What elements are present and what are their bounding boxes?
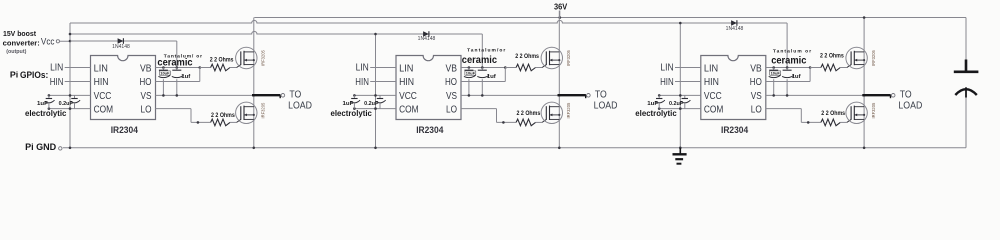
svg-text:LO: LO [446,104,457,115]
svg-text:1uf: 1uf [181,74,190,80]
node LIN input label (block 2) [356,63,369,74]
svg-text:IRF3205: IRF3205 [261,102,266,118]
IC U3 IR2304 gate driver [701,56,766,120]
svg-text:HO: HO [445,77,457,88]
value label 2 2 Ohms (R1B) [211,112,235,119]
node Pi GND terminal [25,141,62,152]
capacitor C1B 0.2uF ceramic (VCC decoupling, block 1) [71,95,80,108]
value label 1N4148 (D3) [726,26,744,32]
wire VB node (U3 pin to bootstrap caps) [766,66,812,69]
svg-text:IR2304: IR2304 [721,125,748,135]
svg-text:Tantalum or: Tantalum or [773,49,811,55]
wire Vcc feed line B (to block 2) [70,31,482,34]
svg-text:2 2 Ohms: 2 2 Ohms [820,53,844,60]
value label 1uf (block 3) [792,74,801,80]
svg-text:Tantalum/or: Tantalum/or [467,48,505,54]
svg-text:HO: HO [140,77,152,88]
wire 36V top supply rail [254,17,966,19]
node 36V label and tap [554,1,568,18]
svg-text:ceramic: ceramic [462,55,498,66]
svg-text:HIN: HIN [355,77,369,88]
IC U1 value label IR2304 [111,125,138,135]
svg-text:1uF: 1uF [647,101,658,107]
wire LIN input to U3 [675,67,701,69]
IC U2 pin labels LIN HIN VCC COM [399,63,419,115]
svg-text:COM: COM [704,104,724,115]
node HIN input label (block 2) [355,77,369,88]
svg-text:VCC: VCC [704,91,722,102]
wire COM pin net (block 3) [658,107,701,110]
capacitor C1A 1uF electrolytic (VCC decoupling, block 1) [45,95,54,108]
svg-text:Pi: Pi [10,71,18,80]
capacitor C1C 10uF tantalum bootstrap (block 1) [158,68,170,96]
svg-text:TO: TO [900,90,912,101]
capacitor C2D 1uF ceramic bootstrap (block 2) [477,68,489,96]
svg-text:IRF3205: IRF3205 [566,102,571,118]
wire HIN input to U1 [65,81,91,83]
IC U1 pin labels LIN HIN VCC COM [94,63,114,115]
svg-text:HIN: HIN [50,77,64,88]
value label 1uf (block 1) [181,74,190,80]
svg-text:HO: HO [750,77,762,88]
transistor Q3B IRF3205 low-side MOSFET [846,102,867,123]
IC U3 pin labels LIN HIN VCC COM [704,63,724,115]
svg-text:1uf: 1uf [487,74,496,80]
transistor Q1B IRF3205 low-side MOSFET [236,102,257,123]
capacitor C1D 1uF ceramic bootstrap (block 1) [172,68,184,96]
wire LIN input to U2 [370,67,396,69]
node 15V boost converter output label [3,31,40,55]
resistor R1A 2.2 Ohms high-side gate (block 1) [200,64,241,71]
resistor R1B 2.2 Ohms low-side gate (block 1) [211,119,241,126]
wire half-bridge column drain/source (block 1) [253,18,256,150]
value label Tantalum/ceramic (block 2) [462,48,506,66]
svg-text:VCC: VCC [94,91,112,102]
svg-text:COM: COM [399,104,419,115]
capacitor C3D 1uF ceramic bootstrap (block 3) [782,68,794,96]
wire half-bridge column drain/source (block 3) [863,16,866,149]
value label IRF3205 (Q1B) [261,102,266,118]
capacitor C2C 10uF tantalum bootstrap (block 2) [464,68,476,96]
svg-text:0.2uF: 0.2uF [669,101,684,107]
capacitor C7 output electrolytic (36V bus) [954,60,979,98]
capacitor C3B 0.2uF ceramic (VCC decoupling, block 3) [681,95,690,108]
diode D1 1N4148 bootstrap [118,38,124,44]
node LIN input label (block 3) [660,63,673,74]
resistor R3B 2.2 Ohms low-side gate (block 3) [821,119,851,126]
value label 2 2 Ohms (R3A) [820,53,844,60]
node HIN input label (block 1) [50,77,64,88]
IC U1 pin labels VB HO VS LO [140,63,152,115]
svg-text:ceramic: ceramic [771,56,807,67]
value label IRF3205 (Q1A) [261,50,266,66]
value label IRF3205 (Q2A) [566,50,571,66]
wire COM pin net (block 1) [48,107,91,110]
wire bootstrap feed drop to VB node (block 1) [176,41,178,68]
svg-text:HIN: HIN [660,77,674,88]
wire HIN input to U2 [370,81,396,83]
svg-text:GPIOs:: GPIOs: [20,70,48,80]
svg-text:1N4148: 1N4148 [726,26,744,32]
value label 0.2uF (block 1) [59,101,74,107]
capacitor C3C 10uF tantalum bootstrap (block 3) [769,68,781,96]
value label 1uf (block 2) [487,74,496,80]
svg-text:LIN: LIN [50,63,63,74]
svg-text:15V boost: 15V boost [3,31,37,38]
svg-text:Pi GND: Pi GND [25,141,56,152]
svg-text:(output): (output) [6,49,26,55]
svg-text:1N4148: 1N4148 [418,36,436,42]
svg-text:IR2304: IR2304 [416,125,443,135]
svg-text:IR2304: IR2304 [111,125,138,135]
node TO LOAD label (block 2) [594,90,618,112]
value label 0.2uF (block 3) [669,101,684,107]
value label electrolytic (block 2) [331,108,373,118]
IC U2 value label IR2304 [416,125,443,135]
svg-text:1uF: 1uF [37,101,48,107]
wire VS switch node (U3 to half-bridge midpoint) [766,94,866,97]
svg-text:IRF3205: IRF3205 [566,50,571,66]
value label 1N4148 (D2) [418,36,436,42]
wire LO gate drive (U1) [156,109,211,124]
value label 10uF boxed (block 3) [770,71,781,76]
svg-text:LOAD: LOAD [288,100,312,111]
svg-text:2 2 Ohms: 2 2 Ohms [210,57,234,64]
wire VCC pin net (block 2) [353,94,396,97]
value label Tantalum/ceramic (block 1) [157,54,202,69]
value label 2 2 Ohms (R3B) [821,110,845,117]
svg-text:LIN: LIN [660,63,673,74]
svg-text:10uF: 10uF [160,72,170,76]
value label 10uF boxed (block 2) [465,71,476,76]
svg-text:electrolytic: electrolytic [331,108,373,118]
svg-text:2 2 Ohms: 2 2 Ohms [821,110,845,117]
svg-text:COM: COM [94,104,114,115]
svg-text:LOAD: LOAD [594,100,618,111]
svg-text:VS: VS [446,91,457,102]
node TO LOAD label (block 1) [288,90,312,112]
wire right edge vertical (36V rail to filter cap to ground rail) [965,18,967,148]
IC U3 pin labels VB HO VS LO [750,63,762,115]
svg-text:10uF: 10uF [771,72,781,76]
IC U3 value label IR2304 [721,125,748,135]
resistor R3A 2.2 Ohms high-side gate (block 3) [810,64,851,71]
svg-text:LO: LO [141,104,152,115]
svg-text:VCC: VCC [399,91,417,102]
svg-text:TO: TO [289,90,301,101]
svg-text:10uF: 10uF [466,72,476,76]
wire TO LOAD output tap (block 3) [862,94,895,99]
svg-text:0.2uF: 0.2uF [59,101,74,107]
value label IRF3205 (Q2B) [566,102,571,118]
wire half-bridge column drain/source (block 2) [558,11,561,150]
wire VB node (U2 pin to bootstrap caps) [461,66,507,69]
wire bootstrap feed drop to VB node (block 2) [481,34,483,68]
svg-text:LIN: LIN [704,63,718,74]
svg-text:HIN: HIN [399,77,414,88]
svg-text:LIN: LIN [94,63,108,74]
svg-text:VB: VB [140,63,152,74]
wire TO LOAD output tap (block 2) [558,94,591,99]
value label Tantalum/ceramic (block 3) [771,49,811,67]
IC U1 IR2304 gate driver [91,56,156,120]
svg-text:VS: VS [751,91,762,102]
value label IRF3205 (Q3B) [871,102,876,118]
wire Vcc feed line A (to block 3) [70,20,787,23]
svg-text:LIN: LIN [356,63,369,74]
wire bootstrap feed drop to VB node (block 3) [786,23,788,68]
wire COM pin net (block 2) [353,107,396,110]
wire LO gate drive (U2) [461,109,516,124]
wire Vcc/ground column (block 3) [679,22,682,149]
wire VB node (U1 pin to bootstrap caps) [156,66,202,69]
wire VS switch node (U1 to half-bridge midpoint) [156,94,256,97]
svg-text:ceramic: ceramic [157,58,193,69]
svg-text:2 2 Ohms: 2 2 Ohms [211,112,235,119]
wire VCC pin net (block 1) [48,94,91,97]
svg-text:IRF3205: IRF3205 [871,102,876,118]
wire HO gate drive (U3) [766,68,810,82]
svg-text:VS: VS [141,91,152,102]
wire 36V tap to label [559,11,561,18]
ground earth symbol (block 3) [673,148,687,164]
IC U2 IR2304 gate driver [396,56,461,120]
value label 1uF (block 3) [647,101,658,107]
svg-text:LOAD: LOAD [898,100,922,111]
wire Vcc/ground column (block 2) [374,33,377,149]
svg-text:2 2 Ohms: 2 2 Ohms [517,110,541,117]
node TO LOAD label (block 3) [898,90,922,112]
svg-text:electrolytic: electrolytic [635,108,677,118]
value label IRF3205 (Q3A) [871,50,876,66]
value label 0.2uF (block 2) [364,101,379,107]
svg-text:electrolytic: electrolytic [25,108,67,118]
node Pi GPIOs label [10,70,48,80]
value label 1uF (block 1) [37,101,48,107]
value label 10uF boxed (block 1) [159,71,170,76]
node Vcc terminal [41,36,70,46]
svg-text:LIN: LIN [399,63,413,74]
svg-text:2 2 Ohms: 2 2 Ohms [515,53,539,60]
resistor R2B 2.2 Ohms low-side gate (block 2) [516,119,546,126]
capacitor C3A 1uF electrolytic (VCC decoupling, block 3) [656,95,665,108]
svg-text:Vcc: Vcc [41,36,55,46]
wire Vcc feed through bootstrap diode (block 1) [70,40,177,42]
wire ground bottom rail (Pi GND) [63,147,966,149]
value label electrolytic (block 1) [25,108,67,118]
capacitor C2B 0.2uF ceramic (VCC decoupling, block 2) [376,95,385,108]
svg-text:HIN: HIN [94,77,109,88]
wire HIN input to U3 [675,81,701,83]
wire Vcc/ground column (block 1) [69,23,72,149]
svg-text:0.2uF: 0.2uF [364,101,379,107]
resistor R2A 2.2 Ohms high-side gate (block 2) [505,64,546,71]
wire VS switch node (U2 to half-bridge midpoint) [461,94,561,97]
svg-text:36V: 36V [554,1,568,11]
diode D3 1N4148 bootstrap [731,20,737,26]
node HIN input label (block 3) [660,77,674,88]
diode D2 1N4148 bootstrap [423,31,429,37]
svg-text:HIN: HIN [704,77,719,88]
capacitor C2A 1uF electrolytic (VCC decoupling, block 2) [351,95,360,108]
svg-text:converter:: converter: [3,40,40,47]
wire TO LOAD output tap (block 1) [252,94,285,99]
value label 2 2 Ohms (R2A) [515,53,539,60]
transistor Q2B IRF3205 low-side MOSFET [541,102,562,123]
svg-text:1N4148: 1N4148 [112,44,130,50]
value label 1N4148 (D1) [112,44,130,50]
wire HO gate drive (U1) [156,68,200,82]
svg-text:TO: TO [595,90,607,101]
transistor Q2A IRF3205 high-side MOSFET [541,47,562,68]
value label 2 2 Ohms (R1A) [210,57,234,64]
wire LIN input to U1 [65,67,91,69]
svg-text:1uF: 1uF [343,101,354,107]
node LIN input label (block 1) [50,63,63,74]
svg-text:IRF3205: IRF3205 [871,50,876,66]
transistor Q3A IRF3205 high-side MOSFET [846,47,867,68]
svg-text:VB: VB [750,63,762,74]
svg-text:IRF3205: IRF3205 [261,50,266,66]
value label 1uF (block 2) [343,101,354,107]
value label 2 2 Ohms (R2B) [517,110,541,117]
wire LO gate drive (U3) [766,109,821,124]
IC U2 pin labels VB HO VS LO [445,63,457,115]
svg-text:LO: LO [751,104,762,115]
wire VCC pin net (block 3) [658,94,701,97]
svg-text:VB: VB [446,63,458,74]
svg-text:1uf: 1uf [792,74,801,80]
transistor Q1A IRF3205 high-side MOSFET [236,47,257,68]
value label electrolytic (block 3) [635,108,677,118]
wire HO gate drive (U2) [461,68,505,82]
